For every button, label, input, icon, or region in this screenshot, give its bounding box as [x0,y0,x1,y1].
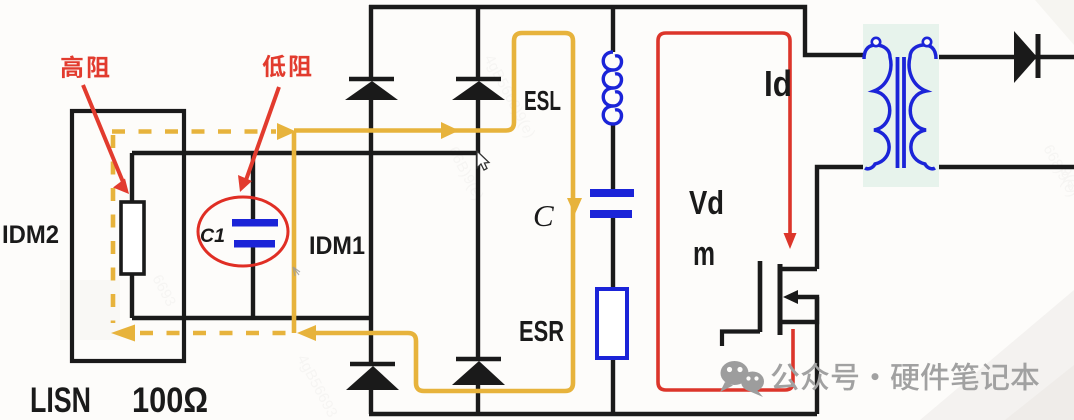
svg-text:ESR: ESR [519,316,564,348]
transistor Q1 body arrow [783,290,798,304]
label gaozu (high impedance) [61,55,82,78]
diode D5 output rectifier [1014,31,1037,83]
resistor ESR [597,289,627,358]
wire AC bottom line [132,316,371,320]
diode D1 (bridge top-left) [349,77,394,82]
wire bridge leg 2 [476,5,480,414]
wire C1 branch [251,153,255,318]
diode D4 (bridge bottom-right) [456,357,501,362]
diode D3 (bridge bottom-left) [350,362,395,367]
wire noise path dashed (high impedance via LISN) [112,132,290,334]
red arrow from gaozu label to resistor [83,85,123,182]
wire transformer primary bottom to drain [817,167,868,269]
wire resistor stems [130,153,134,318]
wire input cap branch [611,7,615,414]
wire AC top line [132,151,478,155]
wire bridge leg 1 [369,5,373,414]
svg-text:IDM1: IDM1 [309,232,365,260]
mouse cursor [477,151,489,170]
watermark wechat icon [720,361,764,397]
wire secondary bottom [934,165,1074,169]
transformer core [898,57,905,168]
arrowhead yellow mid top [441,122,459,139]
transistor Q1 MOSFET [722,261,817,414]
wire noise path vertical via C1 branch [292,131,297,333]
svg-text:ESL: ESL [524,85,561,116]
diode D2 (bridge top-right) [456,77,501,82]
red measurement loop box with Id arrow [658,33,793,390]
svg-text:100Ω: 100Ω [132,381,208,420]
arrowhead yellow top junction [277,123,296,140]
transformer secondary winding [909,45,936,169]
inductor ESL [603,52,621,124]
transformer T1 highlight background [863,24,939,187]
red arrow from dizu label to C1 [246,87,279,180]
arrowhead yellow bottom junction [297,325,316,341]
faint watermark texts [148,52,1074,420]
arrowhead yellow down on ESR box right [567,198,582,215]
wire DC- bottom rail [369,412,817,416]
red ellipse around C1 [198,197,288,266]
arrowhead yellow bottom left [111,325,135,342]
arrowhead Id red [784,233,797,249]
svg-text:C1: C1 [200,226,225,247]
label dizu (low impedance) [263,55,286,78]
transformer primary winding [864,45,891,169]
wire DC+ top rail [369,7,866,55]
faint cursor mark [293,267,300,276]
watermark text [771,363,799,390]
LISN box [72,111,184,361]
capacitor C (bulk) [590,189,634,197]
wire secondary top [934,55,1074,59]
svg-text:LISN: LISN [30,381,91,420]
wire noise path solid loop (low impedance) [294,33,573,391]
svg-text:C: C [533,198,554,233]
svg-text:m: m [693,235,715,273]
svg-text:Vd: Vd [689,184,724,221]
svg-text:IDM2: IDM2 [2,221,59,249]
transformer dot secondary [923,38,931,46]
capacitor C1 [232,219,278,227]
resistor LISN 100ohm [121,202,144,274]
transformer dot primary [872,38,880,46]
svg-text:Id: Id [764,63,792,104]
